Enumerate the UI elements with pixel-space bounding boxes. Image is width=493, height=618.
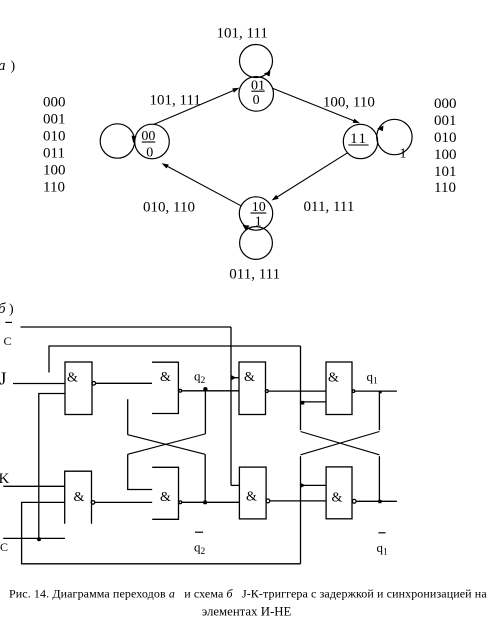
junction marker on q1 tap <box>301 483 306 487</box>
transition arrow 01 to 11 <box>273 88 360 123</box>
svg-text:001: 001 <box>43 112 66 128</box>
wire: master cross-coupling diagonal q2-bar <box>128 435 206 455</box>
svg-text:&: & <box>328 371 339 386</box>
svg-text:000: 000 <box>434 96 457 112</box>
left input-combination list for state 00 self-loop <box>43 95 66 196</box>
wire: U3 output to gate U4 <box>268 390 326 392</box>
right input-combination list for state 11 self-loop <box>434 96 457 196</box>
wire: U7 output to gate U8 <box>270 500 326 502</box>
svg-text:): ) <box>9 302 14 317</box>
state 11 self-loop arrowhead <box>377 126 383 132</box>
wire: C input line <box>3 537 65 539</box>
NAND gate U5 (open bottom) <box>65 471 95 524</box>
state 11 self-loop <box>377 119 412 154</box>
svg-text:011, 111: 011, 111 <box>304 199 355 215</box>
state 10 self-loop <box>240 227 273 260</box>
wire: q1 output line <box>355 390 397 392</box>
wire: C-bar tap into gate U3 <box>231 377 239 379</box>
wire: U5 output to gate U6 <box>95 501 152 503</box>
svg-text:100: 100 <box>43 163 66 179</box>
svg-text:K: K <box>0 471 10 487</box>
svg-text:010: 010 <box>434 130 457 146</box>
state 10 self-loop arrowhead <box>243 225 250 231</box>
wire: slave cross-coupling diagonal q1-bar <box>301 432 380 455</box>
label b) part marker <box>0 301 14 317</box>
transition arrow 10 to 00 <box>162 163 242 206</box>
svg-text:Рис. 14. Диаграмма переходов а: Рис. 14. Диаграмма переходов а и схема б… <box>9 587 487 601</box>
svg-text:000: 000 <box>43 95 66 111</box>
node q1-bar label <box>377 533 389 558</box>
node q2-bar label <box>194 532 206 557</box>
node q2-bar junction dot <box>203 501 207 505</box>
node q2 junction dot <box>203 387 207 391</box>
NAND gate U6 (open left side) <box>152 467 182 519</box>
svg-text:C: C <box>4 334 12 348</box>
wire: J input to gate U1 <box>13 383 65 385</box>
NAND gate U1 <box>65 362 96 415</box>
wire: q1 net vertical down to bottom loop <box>300 456 302 564</box>
NAND gate U3 <box>239 362 268 415</box>
svg-text:010, 110: 010, 110 <box>143 199 195 215</box>
state 01 circle <box>239 77 274 112</box>
inverted clock input label C-bar <box>4 322 13 348</box>
svg-text:&: & <box>74 490 85 505</box>
svg-text:&: & <box>160 370 171 385</box>
svg-text:&: & <box>332 491 343 506</box>
transition arrow 00 to 01 <box>154 88 240 125</box>
junction dot C to U1 riser <box>37 537 41 541</box>
wire: q2-bar line from U6 to U7 <box>182 501 240 503</box>
svg-text:101: 101 <box>434 164 457 180</box>
state 11 label 11 <box>348 131 368 147</box>
svg-text:б: б <box>0 301 6 317</box>
svg-text:C: C <box>0 540 8 554</box>
wire: q2 line from U2 to U3 <box>182 390 239 392</box>
svg-text:J: J <box>0 369 7 389</box>
svg-text:q1: q1 <box>377 540 389 558</box>
label a) part marker <box>0 58 16 74</box>
NAND gate U8 <box>326 467 356 519</box>
wire: master cross-coupling diagonal q2 <box>128 434 206 454</box>
svg-text:011, 111: 011, 111 <box>229 267 280 283</box>
svg-text:0: 0 <box>253 93 260 108</box>
wire: q2-bar branch from node q2-bar <box>204 454 206 502</box>
state 01 label 01/0 <box>251 78 265 108</box>
svg-text:010: 010 <box>43 129 66 145</box>
wire: q1-bar feedback top line <box>49 346 301 373</box>
svg-text:001: 001 <box>434 113 457 129</box>
wire: C-bar tap into gate U7 <box>231 484 239 486</box>
wire: q1-bar output line <box>356 500 397 502</box>
wire: q1 feedback drop from node q1 <box>378 391 380 430</box>
svg-text:q2: q2 <box>194 369 206 387</box>
NAND gate U7 <box>239 467 269 519</box>
wire: q1-bar net vertical (upper part) <box>300 346 302 430</box>
state 01 self-loop arrowhead <box>264 71 271 77</box>
wire: slave cross-coupling diagonal q1 <box>301 432 380 455</box>
state 00 label 00/0 <box>141 129 155 161</box>
wire: U1 output to gate U2 <box>96 382 152 384</box>
svg-text:а: а <box>0 58 6 74</box>
state 10 label 10/1 <box>251 200 267 230</box>
svg-text:110: 110 <box>434 180 456 196</box>
wire: q2-bar riser (dead end near U2) <box>127 399 129 435</box>
wire: K input to gate U5 <box>3 485 64 487</box>
junction marker on C-bar tap <box>232 375 237 380</box>
transition arrow 11 to 10 <box>272 153 348 201</box>
svg-text:1: 1 <box>400 147 407 162</box>
svg-text:&: & <box>244 370 255 385</box>
node q1-bar junction marker <box>378 500 381 503</box>
svg-text:&: & <box>67 371 78 386</box>
wire: clock C riser into gate U1 lower input <box>39 394 65 540</box>
svg-text:0: 0 <box>146 146 153 161</box>
wire: q1 tap into gate U8 <box>301 484 327 486</box>
state 10 circle <box>239 197 272 230</box>
state 00 self-loop <box>100 124 134 158</box>
NAND gate U4 <box>326 362 355 415</box>
svg-text:&: & <box>160 490 171 505</box>
junction marker on q1-bar tap <box>301 401 304 405</box>
svg-text:101, 111: 101, 111 <box>150 93 201 109</box>
svg-text:): ) <box>11 59 16 74</box>
svg-text:100: 100 <box>434 147 457 163</box>
wire: q1-bar tap into gate U4 <box>301 401 326 403</box>
wire: q2 branch down into gate U6 <box>128 454 153 489</box>
svg-text:100, 110: 100, 110 <box>323 95 375 111</box>
state 00 circle <box>135 124 170 159</box>
wire: q1-bar branch down to node q1-bar <box>378 456 380 501</box>
wire: C-bar vertical drop to gates U3 and U7 <box>230 327 232 485</box>
svg-text:q2: q2 <box>194 540 206 558</box>
wire: q2 drop from node q2 <box>204 390 206 434</box>
svg-text:элементах И-НЕ: элементах И-НЕ <box>202 605 292 618</box>
wire: q1 loop into gate U5 lower input <box>22 502 301 563</box>
svg-text:011: 011 <box>43 146 65 162</box>
svg-text:101, 111: 101, 111 <box>217 26 268 42</box>
svg-text:&: & <box>246 490 257 505</box>
NAND gate U2 (open left side) <box>152 362 182 413</box>
svg-text:q1: q1 <box>367 369 379 387</box>
svg-text:110: 110 <box>43 180 65 196</box>
state 01 self-loop <box>240 45 273 78</box>
wire: C-bar distribution line <box>21 326 232 328</box>
state 00 self-loop arrowhead <box>132 136 137 144</box>
node q1 junction tick <box>379 391 381 393</box>
state 11 circle <box>343 124 377 158</box>
